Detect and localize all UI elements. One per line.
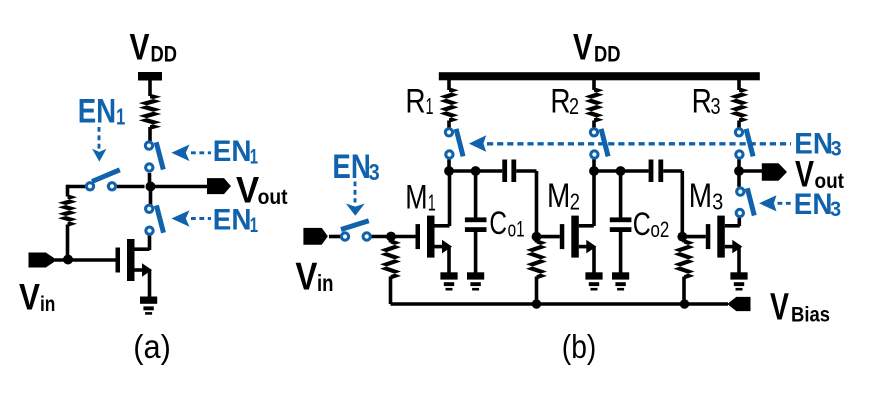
- svg-text:EN: EN: [213, 135, 252, 168]
- svg-text:out: out: [815, 170, 845, 193]
- svg-text:M: M: [547, 177, 570, 215]
- svg-text:1: 1: [428, 190, 436, 216]
- svg-text:V: V: [295, 256, 317, 299]
- svg-text:R: R: [550, 83, 570, 121]
- svg-text:1: 1: [250, 214, 259, 237]
- svg-text:V: V: [19, 277, 40, 318]
- svg-text:3: 3: [831, 137, 842, 160]
- svg-text:R: R: [692, 83, 712, 121]
- svg-text:Bias: Bias: [791, 304, 830, 327]
- svg-text:M: M: [405, 179, 427, 217]
- svg-text:DD: DD: [151, 42, 178, 67]
- svg-text:(b): (b): [562, 328, 597, 365]
- svg-text:1: 1: [426, 93, 434, 119]
- svg-text:V: V: [130, 27, 150, 68]
- svg-text:o1: o1: [508, 217, 525, 242]
- svg-text:EN: EN: [78, 93, 116, 131]
- svg-text:2: 2: [569, 93, 579, 119]
- svg-text:2: 2: [570, 188, 580, 214]
- svg-text:V: V: [770, 287, 789, 329]
- svg-text:V: V: [795, 153, 814, 194]
- svg-text:DD: DD: [594, 42, 621, 67]
- svg-text:(a): (a): [133, 328, 171, 365]
- svg-text:3: 3: [369, 159, 380, 185]
- svg-text:EN: EN: [332, 148, 370, 186]
- svg-text:V: V: [573, 27, 593, 68]
- svg-text:R: R: [405, 83, 425, 121]
- svg-text:out: out: [258, 186, 288, 209]
- svg-text:C: C: [633, 206, 651, 242]
- svg-text:C: C: [489, 205, 507, 241]
- svg-text:3: 3: [711, 93, 721, 119]
- svg-text:in: in: [317, 270, 334, 296]
- svg-text:o2: o2: [651, 217, 670, 242]
- svg-text:M: M: [689, 177, 712, 215]
- svg-text:1: 1: [116, 103, 125, 129]
- svg-text:3: 3: [830, 198, 841, 221]
- svg-text:V: V: [236, 170, 259, 211]
- svg-text:in: in: [40, 293, 55, 316]
- svg-text:1: 1: [250, 146, 259, 169]
- svg-text:3: 3: [712, 188, 723, 214]
